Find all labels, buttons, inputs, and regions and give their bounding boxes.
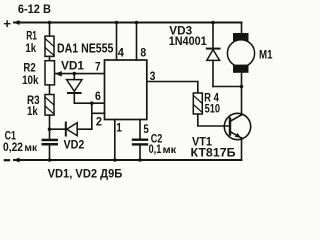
wire R4 to base [198,114,229,126]
svg-text:6: 6 [95,89,101,103]
svg-text:1: 1 [116,121,122,135]
wire R1 top [49,23,51,37]
diode VD1 [73,74,75,80]
wire riser to pin6 [91,103,93,129]
capacitor C1 [42,139,59,142]
wire R2-R3 [49,85,51,95]
svg-text:7: 7 [95,60,101,74]
svg-text:VD1: VD1 [61,58,84,72]
node junction dot VD2 branch [48,127,52,131]
motor M1 [233,33,249,41]
node junction dot VD1 top [73,72,77,76]
svg-text:8: 8 [140,46,146,60]
svg-text:5: 5 [143,122,149,136]
node junction dot collector [240,85,244,89]
resistor R2 potentiometer body [45,61,55,85]
svg-text:10k: 10k [22,73,39,87]
node plus arrow [14,20,20,25]
wire pin4 [116,23,118,61]
wire pin1 [114,120,116,161]
svg-text:0,1: 0,1 [149,142,162,156]
wire VD2 to riser [77,128,92,130]
wire emitter down [241,138,243,160]
wire pin8 [136,23,138,61]
wire right down from rail to motor [241,23,243,35]
wire pin6 [74,102,104,104]
capacitor C2 [132,139,148,141]
node junction dot C2 bottom [138,158,142,162]
resistor R1 [45,36,54,56]
svg-text:мк: мк [163,145,178,156]
svg-text:+: + [3,16,11,31]
wire pin3 [147,82,198,94]
svg-text:6-12 В: 6-12 В [18,2,51,16]
wire bottom rail [14,159,242,161]
svg-text:КТ817Б: КТ817Б [191,146,236,160]
node minus dash [5,159,9,161]
wire motor to collector [241,74,243,116]
svg-text:VD1, VD2 Д9Б: VD1, VD2 Д9Б [48,166,123,180]
wire top rail [14,22,242,24]
transistor Q1 VT1 [224,113,250,139]
wire R1-R2 [49,56,51,60]
svg-text:510: 510 [205,101,221,115]
svg-text:2: 2 [96,115,102,129]
resistor R3 [45,95,54,116]
node minus arrow [14,158,20,163]
node junction dot VD3 top [211,21,215,25]
svg-text:1N4001: 1N4001 [169,34,207,48]
svg-text:1k: 1k [25,41,36,55]
svg-text:4: 4 [118,46,124,60]
diode VD3 [212,23,214,49]
svg-text:M1: M1 [259,48,273,62]
node junction dot C1 bottom [48,158,52,162]
wire R3 to C1 [49,115,51,139]
node junction dot R1 top [48,21,52,25]
node junction dot pin8 [135,21,139,25]
wire VD3 to collector column [213,86,242,88]
resistor R4 [193,93,202,114]
node junction dot pin4 [115,21,119,25]
svg-text:VD2: VD2 [64,138,85,152]
svg-text:3: 3 [150,69,156,83]
wire pin7 wiper [55,73,105,75]
wire pin5 [139,120,141,139]
node junction dot pin6 [90,101,94,105]
node wiper arrow [55,71,62,77]
svg-text:1k: 1k [27,104,38,118]
wire VD2 branch horizontal [50,128,66,130]
wire pin2 [92,112,105,114]
svg-text:DA1 NE555: DA1 NE555 [57,41,113,55]
svg-text:мк: мк [24,143,38,154]
svg-text:0,22: 0,22 [3,140,23,154]
diode VD2 [65,123,67,136]
node junction dot pin1 bottom [113,158,117,162]
op-amp U1 IC DA1 box [105,60,147,120]
